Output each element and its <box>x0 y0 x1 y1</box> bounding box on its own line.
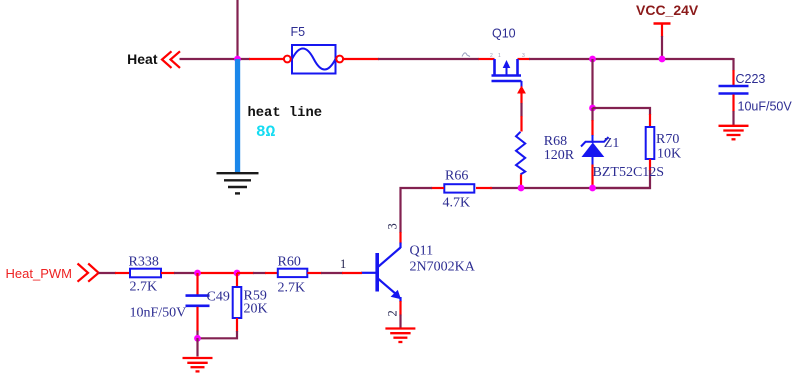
wire Q10 left pin (red) <box>479 58 495 60</box>
node Heat junction <box>234 56 241 63</box>
ground C49/R59 (red) <box>183 358 213 371</box>
resistor R59 <box>233 273 268 332</box>
transistor Q11 <box>361 243 476 303</box>
wire R66 left to Q11 collector <box>401 188 445 244</box>
svg-text:2.7K: 2.7K <box>278 281 306 296</box>
svg-text:2: 2 <box>386 310 400 316</box>
fuse F5 <box>284 25 343 74</box>
wire Q11 emitter to ground <box>399 301 401 328</box>
wire Q10 to C223 corner <box>529 58 734 60</box>
port Heat <box>127 51 180 68</box>
svg-text:R338: R338 <box>129 255 159 270</box>
node R68/rail <box>518 185 525 192</box>
wire branch to R70 <box>593 108 651 115</box>
svg-text:3: 3 <box>522 53 525 59</box>
resistor R70 <box>646 114 681 171</box>
wire Z1 column upper <box>591 59 593 108</box>
node main/Z1 branch <box>589 56 596 63</box>
svg-text:F5: F5 <box>291 25 306 39</box>
capacitor C223 <box>719 58 793 125</box>
node bottom C49/gnd <box>194 335 201 342</box>
resistor R60 <box>278 255 308 296</box>
svg-text:R68: R68 <box>544 134 567 149</box>
svg-text:Q10: Q10 <box>492 27 516 41</box>
port Heat_PWM <box>6 264 99 282</box>
svg-text:Z1: Z1 <box>604 136 620 151</box>
svg-text:C49: C49 <box>207 290 230 305</box>
wire R338 to C49 node <box>161 272 198 274</box>
resistor R338 <box>129 255 162 295</box>
wire Heat to junction <box>180 58 251 60</box>
svg-text:2: 2 <box>490 53 493 59</box>
svg-text:R70: R70 <box>656 132 679 147</box>
resistor R66 <box>443 169 475 211</box>
zener Z1 <box>581 108 664 188</box>
svg-text:R66: R66 <box>445 169 468 184</box>
transistor Q10 <box>462 27 526 104</box>
svg-text:2N7002KA: 2N7002KA <box>410 260 476 275</box>
ground heat line (black) <box>217 173 259 193</box>
svg-text:1: 1 <box>340 257 346 271</box>
wire R70 bottom corner <box>593 170 651 188</box>
svg-text:1: 1 <box>498 53 501 59</box>
ground Q11 (red) <box>385 329 415 343</box>
svg-text:2.7K: 2.7K <box>130 280 158 295</box>
svg-text:8Ω: 8Ω <box>256 123 276 141</box>
heat line element (8 ohm) <box>235 59 322 173</box>
wire R59 bottom corner to C49 node <box>198 331 238 338</box>
svg-text:20K: 20K <box>244 302 268 317</box>
svg-text:heat line: heat line <box>248 105 323 121</box>
svg-text:120R: 120R <box>544 148 575 163</box>
wire C49 node to R59 node <box>198 272 238 274</box>
svg-text:Q11: Q11 <box>410 244 434 259</box>
svg-text:R60: R60 <box>278 255 301 270</box>
wire Q10 right pin (red) <box>518 58 531 60</box>
wire F5 right (red) <box>343 58 379 60</box>
node main/VCC <box>659 56 666 63</box>
node R59 <box>234 270 241 277</box>
ground C223 (red) <box>719 126 749 140</box>
node Z1/rail <box>589 185 596 192</box>
svg-text:Heat_PWM: Heat_PWM <box>6 266 72 281</box>
svg-text:BZT52C12S: BZT52C12S <box>593 165 665 180</box>
power VCC_24V <box>636 2 699 59</box>
svg-text:10uF/50V: 10uF/50V <box>738 100 793 114</box>
wire Heat_PWM to R338 <box>99 272 131 274</box>
wire junction to F5 left (red) <box>249 58 284 60</box>
wire R59 node to R60 <box>237 272 278 274</box>
svg-text:VCC_24V: VCC_24V <box>636 2 699 18</box>
capacitor C49 <box>130 273 230 338</box>
wire top vertical feed <box>236 0 238 59</box>
svg-text:C223: C223 <box>736 72 766 86</box>
wire F5 to Q10 <box>378 58 479 60</box>
wire R60 to Q11 base <box>307 272 362 274</box>
wire R66 right stub (red) <box>476 187 492 189</box>
wire bottom rail <box>490 187 651 189</box>
node Z1/R70 branch <box>589 105 596 112</box>
svg-text:4.7K: 4.7K <box>443 196 471 211</box>
node C49 <box>194 270 201 277</box>
svg-text:Heat: Heat <box>127 51 158 67</box>
svg-text:3: 3 <box>386 223 400 229</box>
svg-text:10K: 10K <box>657 147 681 162</box>
resistor R68 <box>516 103 575 188</box>
wire gnd stub <box>196 338 198 357</box>
svg-text:10nF/50V: 10nF/50V <box>130 306 187 321</box>
